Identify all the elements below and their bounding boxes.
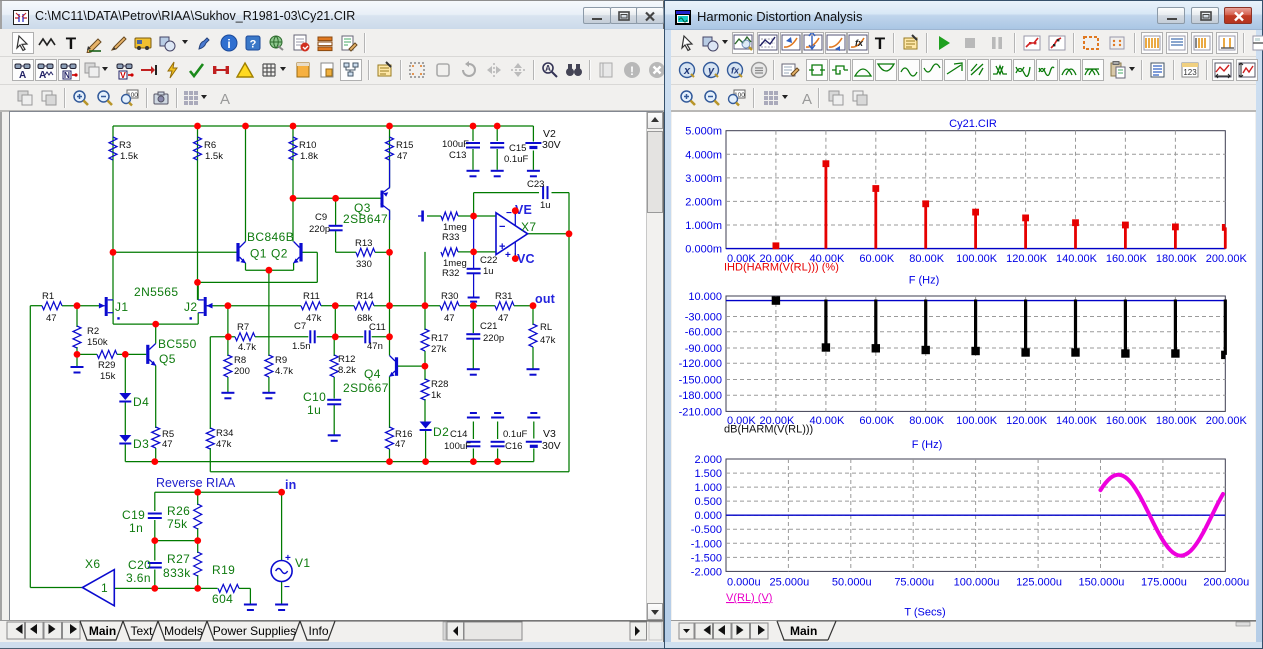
svg-text:2.000m: 2.000m [685, 196, 722, 208]
wire to R33 node [473, 193, 475, 216]
svg-text:Main: Main [790, 624, 817, 638]
svg-text:1.5n: 1.5n [292, 341, 311, 352]
svg-text:T: T [875, 34, 886, 53]
svg-text:C22: C22 [480, 255, 497, 266]
svg-text:-180.000: -180.000 [679, 390, 722, 402]
capacitor C7 [309, 330, 311, 343]
svg-text:47k: 47k [306, 313, 322, 324]
wire R32 left down [424, 252, 426, 306]
svg-text:-1.500: -1.500 [691, 552, 722, 564]
wire R11 right [321, 305, 335, 307]
ground V2 [527, 170, 540, 172]
wire Q5 emitter to R5 [155, 366, 157, 429]
wire RIAA top row [155, 491, 282, 493]
svg-text:V: V [120, 70, 126, 80]
wire down to R7 row [227, 306, 229, 337]
svg-text:y: y [707, 65, 715, 77]
svg-text:in: in [285, 478, 297, 492]
node C11 right [386, 333, 393, 340]
svg-text:RL: RL [540, 322, 552, 333]
wire C23 left [474, 192, 539, 194]
svg-text:120.00K: 120.00K [1006, 415, 1048, 427]
svg-text:47k: 47k [540, 335, 556, 346]
svg-text:25.000u: 25.000u [770, 577, 810, 589]
node rail-C13 [470, 123, 477, 130]
svg-text:D4: D4 [133, 395, 149, 409]
wire R3 branch [112, 126, 114, 252]
svg-text:-2.000: -2.000 [691, 566, 722, 578]
node J2 drain [194, 279, 201, 286]
svg-text:R10: R10 [299, 140, 316, 151]
input terminal I [421, 211, 424, 222]
wire V1 to ground [281, 582, 283, 604]
top ground C14 [470, 412, 477, 414]
ground R2 [71, 366, 84, 368]
wire R34 bottom [209, 448, 211, 472]
svg-text:75.000u: 75.000u [894, 577, 934, 589]
ground C21 [467, 368, 480, 370]
svg-text:-1.000: -1.000 [691, 538, 722, 550]
source V1 [271, 553, 292, 593]
resistor R26 [194, 504, 202, 529]
wire to J2 drain [198, 281, 318, 283]
svg-text:Q5: Q5 [159, 352, 176, 366]
chart 3 V(RL) sine curve (magenta) [1101, 475, 1224, 556]
svg-text:200: 200 [234, 366, 250, 377]
wire in to V1 [281, 492, 283, 560]
wire VC pin [514, 253, 516, 259]
svg-text:C21: C21 [480, 321, 497, 332]
chart 2 dB stems (black) [826, 300, 1225, 355]
chart 1 IHD stems (red) [776, 164, 1225, 249]
wire V- rail [125, 461, 534, 463]
svg-text:J1: J1 [115, 300, 128, 314]
svg-text:dB(HARM(V(RL))): dB(HARM(V(RL))) [724, 424, 813, 436]
svg-text:VC: VC [517, 252, 535, 266]
wire Q2 base right [303, 251, 318, 253]
wire R29 to Q5 base [117, 353, 146, 355]
node R2-R29 [74, 351, 81, 358]
resistor R29 [97, 350, 117, 358]
svg-text:i: i [227, 37, 230, 51]
wire R31 to out [514, 305, 533, 307]
svg-text:47: 47 [444, 313, 455, 324]
svg-text:0.000m: 0.000m [685, 244, 722, 256]
svg-text:4.7k: 4.7k [238, 342, 256, 353]
resistor R30 [440, 302, 459, 310]
wire VE pin [514, 211, 516, 215]
wire R5 bottom [155, 448, 157, 462]
svg-text:Power Supplies: Power Supplies [213, 624, 296, 638]
wire R9 bottom [268, 377, 270, 392]
resistor R27 [194, 552, 202, 576]
svg-text:Q1: Q1 [250, 247, 267, 261]
svg-text:47: 47 [498, 313, 509, 324]
svg-text:1.000: 1.000 [694, 482, 722, 494]
capacitor C10 [327, 399, 341, 401]
svg-text:−: − [506, 208, 512, 219]
wire C21 top [472, 306, 474, 333]
svg-text:140.00K: 140.00K [1056, 415, 1098, 427]
svg-text:60.00K: 60.00K [859, 415, 895, 427]
wire R7 to C7 [255, 336, 308, 338]
wire Q3 base [293, 197, 382, 199]
svg-text:IHD(HARM(V(RL))) (%): IHD(HARM(V(RL))) (%) [724, 261, 839, 273]
wire R2 bottom to ground [76, 347, 78, 367]
wire R17 top [424, 306, 426, 330]
wire V+ top rail [113, 125, 533, 127]
svg-text:R6: R6 [204, 140, 216, 151]
resistor R17 [421, 329, 429, 351]
capacitor C13 [466, 142, 480, 144]
chart 1 frame and grid [726, 131, 1225, 249]
wire C16 bottom [497, 449, 499, 462]
diode D3 [119, 435, 131, 442]
capacitor C23 [542, 186, 544, 199]
svg-text:R31: R31 [495, 291, 512, 302]
resistor R13 [356, 248, 375, 256]
resistor R5 [152, 427, 160, 448]
svg-text:C9: C9 [315, 212, 327, 223]
wire R28 to D2 [424, 399, 426, 422]
wire C19 bottom [154, 520, 156, 541]
wire Q4 collector up [389, 337, 391, 356]
node rail-C16 [494, 458, 501, 465]
wire C21 bottom [472, 340, 474, 369]
svg-text:30V: 30V [542, 139, 561, 151]
node rail-R16 [386, 458, 393, 465]
node out [530, 302, 537, 309]
svg-text:1u: 1u [540, 200, 551, 211]
capacitor C11 [364, 330, 366, 343]
svg-text:D3: D3 [133, 437, 149, 451]
svg-text:604: 604 [212, 592, 233, 606]
wire Q4 emitter down [389, 377, 391, 429]
svg-text:3.000m: 3.000m [685, 173, 722, 185]
capacitor C9 [329, 225, 343, 227]
wire V2 top [532, 126, 534, 142]
resistor R28 [421, 379, 429, 400]
wire R30 to R31 [459, 305, 495, 307]
svg-text:75k: 75k [167, 517, 188, 531]
resistor R10 [289, 137, 297, 160]
node rail-R15 [386, 123, 393, 130]
svg-text:C13: C13 [449, 150, 466, 161]
wire C20 top [154, 541, 156, 561]
resistor R3 [109, 137, 117, 160]
svg-text:D2: D2 [433, 425, 449, 439]
svg-text:C10: C10 [303, 390, 326, 404]
wire R27 top [197, 541, 199, 553]
resistor R33 [441, 212, 458, 220]
svg-text:C20: C20 [128, 558, 151, 572]
node VC [512, 255, 519, 262]
node Q4 base [422, 363, 429, 370]
node rail-C15 [494, 123, 501, 130]
node R33 [470, 213, 477, 220]
svg-text:A: A [220, 91, 230, 108]
svg-text:A: A [802, 91, 812, 108]
wire R2/R29 row [77, 353, 97, 355]
svg-text:50.000u: 50.000u [832, 577, 872, 589]
wire X6 output [30, 587, 82, 589]
node rail-R5 [151, 458, 158, 465]
wire J1 drain [112, 252, 114, 300]
svg-text:R3: R3 [119, 140, 131, 151]
svg-text:R34: R34 [216, 428, 233, 439]
wire Q1 emitter down [245, 263, 247, 270]
svg-text:150.000u: 150.000u [1079, 577, 1125, 589]
wire D3 bottom [124, 443, 126, 462]
wire feedback left column [29, 306, 31, 588]
wire V3 top lead [533, 422, 535, 439]
transistor Q1 (BC846B) [238, 242, 246, 264]
wire RL bottom [532, 347, 534, 369]
resistor R11 [301, 302, 321, 310]
wire Q4 base [398, 365, 425, 367]
node rail-R6 [194, 123, 201, 130]
node emitter junction [266, 267, 273, 274]
node source bus [152, 321, 159, 328]
svg-text:Text: Text [130, 624, 153, 638]
svg-text:!: ! [630, 64, 634, 78]
svg-text:-30.000: -30.000 [685, 312, 722, 324]
wire J2 gate row to R11 [207, 305, 301, 307]
wire J2 drain stub [197, 282, 199, 300]
svg-text:A: A [19, 70, 26, 80]
wire R17 bottom [424, 351, 426, 366]
capacitor C14 [466, 441, 480, 443]
jfet J1 [99, 297, 120, 320]
svg-text:+: + [285, 553, 291, 564]
svg-text:100.00K: 100.00K [956, 415, 998, 427]
wire Q1 collector branch [245, 126, 247, 242]
svg-text:1k: 1k [431, 390, 441, 401]
svg-text:100uF: 100uF [444, 441, 471, 452]
wire feedback bottom [210, 471, 569, 473]
node opamp out [566, 230, 573, 237]
svg-text:1.500: 1.500 [694, 468, 722, 480]
wire R2 top lead [76, 306, 78, 327]
svg-text:1.5k: 1.5k [205, 151, 223, 162]
wire C11 left [335, 336, 363, 338]
svg-text:160.00K: 160.00K [1106, 253, 1148, 265]
wire R19 right [239, 587, 250, 589]
svg-text:BC550: BC550 [158, 337, 197, 351]
battery V3 [526, 441, 542, 443]
transistor Q2 (BC846B) [293, 242, 301, 264]
wire C19 top [154, 492, 156, 511]
svg-text:R13: R13 [355, 238, 372, 249]
capacitor C16 [491, 441, 505, 443]
wire C9 bottom lead [335, 231, 337, 253]
svg-text:80.00K: 80.00K [909, 253, 945, 265]
wire R28 top [424, 366, 426, 380]
svg-text:J2: J2 [184, 300, 197, 314]
buffer X6 [82, 570, 114, 606]
svg-text:R8: R8 [234, 355, 246, 366]
svg-text:10.000: 10.000 [688, 291, 722, 303]
svg-text:R19: R19 [212, 563, 235, 577]
op-amp X7 [496, 208, 528, 261]
svg-text:140.00K: 140.00K [1056, 253, 1098, 265]
svg-text:15k: 15k [100, 371, 116, 382]
wire C14 bottom [472, 449, 474, 462]
wire C13 top [472, 126, 474, 141]
resistor R34 [206, 428, 214, 449]
svg-text:220p: 220p [309, 224, 330, 235]
svg-text:2SD667: 2SD667 [343, 381, 389, 395]
wire R12 top [333, 337, 335, 356]
node C22-C21 [470, 302, 477, 309]
wire R32 to opamp+ [458, 251, 496, 253]
svg-text:3.6n: 3.6n [126, 571, 151, 585]
wire R27 bottom [197, 575, 199, 588]
node rail-C14 [470, 458, 477, 465]
svg-text:4.000m: 4.000m [685, 149, 722, 161]
transistor Q5 (BC550) [148, 344, 156, 366]
svg-text:T (Secs): T (Secs) [904, 607, 945, 619]
svg-text:160.00K: 160.00K [1106, 415, 1148, 427]
svg-text:-150.000: -150.000 [679, 375, 722, 387]
svg-text:X6: X6 [85, 557, 100, 571]
svg-text:100uF: 100uF [442, 139, 469, 150]
wire down to R34 [209, 337, 211, 429]
svg-text:0.000: 0.000 [694, 510, 722, 522]
svg-text:40.00K: 40.00K [809, 415, 845, 427]
chart 3 frame and grid [726, 459, 1225, 571]
svg-text:200.00K: 200.00K [1206, 415, 1248, 427]
svg-text:150k: 150k [87, 337, 108, 348]
svg-text:47: 47 [46, 313, 57, 324]
resistor R1 [42, 302, 62, 310]
svg-text:C15: C15 [509, 143, 526, 154]
svg-text:100.00K: 100.00K [956, 253, 998, 265]
svg-text:R17: R17 [431, 333, 448, 344]
svg-text:C23: C23 [527, 179, 544, 190]
wire R26 top [197, 492, 199, 505]
top ground V3 [530, 412, 537, 414]
svg-text:8.2k: 8.2k [338, 365, 356, 376]
svg-text:BC846B: BC846B [247, 230, 294, 244]
wire C10 bottom [333, 405, 335, 435]
top ground C16 [494, 412, 501, 414]
svg-text:47n: 47n [367, 341, 383, 352]
svg-text:R9: R9 [275, 355, 287, 366]
svg-text:-0.500: -0.500 [691, 524, 722, 536]
resistor R32 [441, 248, 458, 256]
wire Q1 base row [113, 251, 237, 253]
svg-text:-90.000: -90.000 [685, 343, 722, 355]
svg-text:5.000m: 5.000m [685, 126, 722, 138]
wire C14 top lead [472, 422, 474, 440]
svg-text:A: A [545, 64, 551, 73]
svg-text:R30: R30 [441, 291, 458, 302]
svg-text:F (Hz): F (Hz) [912, 439, 943, 451]
node X6-C20 [151, 585, 158, 592]
svg-text:V(RL) (V): V(RL) (V) [726, 592, 772, 604]
svg-text:C7: C7 [294, 321, 306, 332]
svg-text:N: N [64, 70, 70, 80]
svg-text:60.00K: 60.00K [859, 253, 895, 265]
svg-text:1u: 1u [483, 266, 494, 277]
wire R15 branch [389, 126, 391, 189]
svg-text:R14: R14 [356, 291, 373, 302]
svg-text:x: x [683, 65, 691, 77]
svg-text:2N5565: 2N5565 [134, 285, 178, 299]
svg-text:330: 330 [356, 259, 372, 270]
node rail-Q1c [242, 123, 249, 130]
wire Q5 collector [155, 324, 157, 343]
wire output right column [568, 234, 570, 472]
svg-text:C11: C11 [369, 322, 386, 333]
svg-text:100.000u: 100.000u [954, 577, 1000, 589]
svg-text:125.000u: 125.000u [1016, 577, 1062, 589]
wire C20 bottom [154, 570, 156, 589]
resistor R6 [194, 137, 202, 160]
resistor R9 [265, 355, 273, 377]
resistor R19 [218, 584, 239, 592]
ground R19 [244, 604, 257, 606]
wire opamp out [528, 233, 569, 235]
svg-text:+: + [505, 250, 511, 261]
svg-text:R1: R1 [42, 291, 54, 302]
node rail-D2 [422, 458, 429, 465]
wire R6 / J2 drain branch [197, 126, 199, 300]
svg-text:1: 1 [101, 581, 108, 595]
svg-text:fx: fx [855, 38, 864, 48]
svg-text:R7: R7 [237, 322, 249, 333]
svg-text:R29: R29 [98, 360, 115, 371]
svg-text:−: − [499, 221, 505, 233]
wire R7 left [210, 336, 235, 338]
node C19-C20 [151, 537, 158, 544]
capacitor C19 [148, 513, 162, 515]
wire C15 top [496, 126, 498, 141]
svg-text:47: 47 [395, 439, 406, 450]
capacitor C15 [490, 142, 504, 144]
diode D2 [420, 422, 432, 429]
svg-text:Models: Models [164, 624, 203, 638]
svg-text:0.500: 0.500 [694, 496, 722, 508]
wire C11 right [372, 336, 390, 338]
wire R26 bottom [197, 528, 199, 541]
wire C13 bottom [472, 149, 474, 170]
svg-text:X7: X7 [521, 220, 536, 234]
svg-text:1u: 1u [307, 403, 321, 417]
node R11-R14 [332, 302, 339, 309]
wire R14 to R30 [374, 305, 440, 307]
node J2 gate [225, 302, 232, 309]
svg-text:R11: R11 [303, 291, 320, 302]
wire R33 to opamp- [458, 215, 496, 217]
resistor R8 [224, 355, 232, 377]
node R7-R8 [225, 333, 232, 340]
svg-text:27k: 27k [431, 344, 447, 355]
svg-text:175.000u: 175.000u [1141, 577, 1187, 589]
jfet J2 [190, 297, 213, 320]
node in [278, 489, 285, 496]
wire Q3 collector down [389, 210, 391, 306]
svg-text:123: 123 [1183, 68, 1197, 77]
node VE [512, 207, 519, 214]
wire R1 to J1 gate [62, 305, 101, 307]
svg-text:T: T [66, 34, 77, 53]
svg-text:Q2: Q2 [271, 247, 288, 261]
wire C9 to R13 [336, 251, 356, 253]
svg-text:-210.000: -210.000 [679, 406, 722, 418]
svg-text:-60.000: -60.000 [685, 327, 722, 339]
